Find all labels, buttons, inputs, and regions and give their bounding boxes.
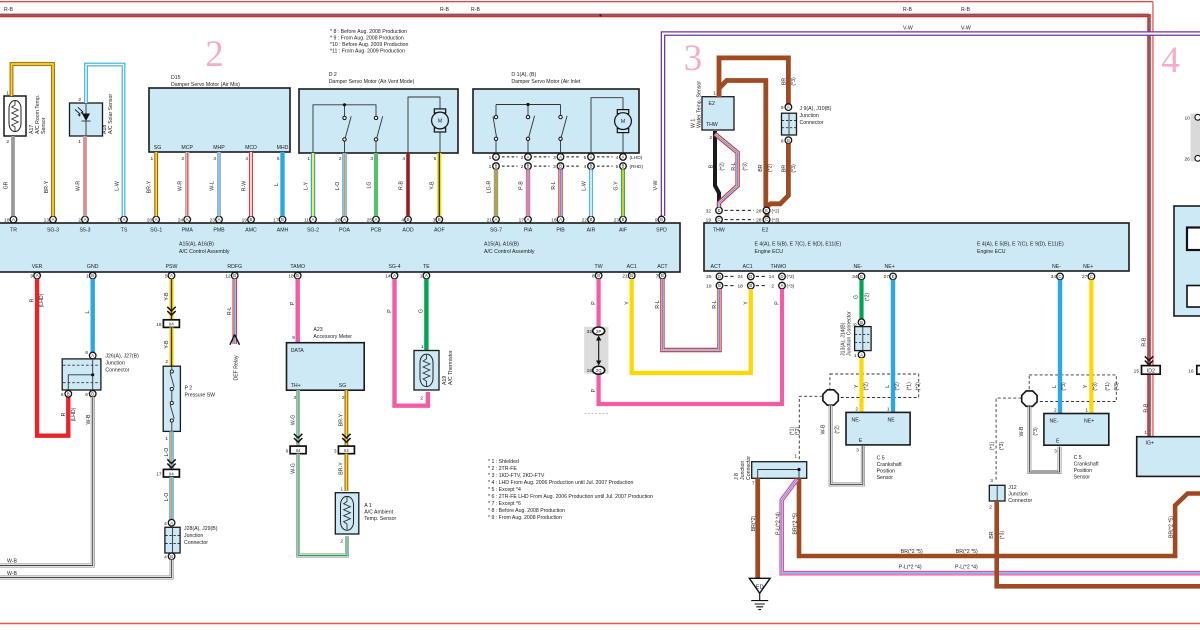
svg-text:G: G: [854, 295, 860, 299]
ID2 connector: [1134, 366, 1200, 375]
A/C assembly top pin names: [10, 228, 667, 234]
shield ground circle C5 #1: [823, 390, 838, 405]
svg-text:2: 2: [989, 505, 992, 511]
svg-text:W-B: W-B: [86, 414, 92, 425]
svg-text:IG+: IG+: [1146, 441, 1155, 447]
svg-text:J28(A), J29(B): J28(A), J29(B): [184, 526, 218, 532]
svg-text:5: 5: [616, 164, 619, 170]
svg-text:D 2: D 2: [329, 72, 337, 78]
svg-text:(*2): (*2): [864, 293, 870, 302]
C5 Crankshaft Position Sensor #2: [1044, 407, 1109, 480]
svg-text:G: G: [419, 309, 425, 313]
svg-text:PIA: PIA: [524, 228, 533, 234]
svg-text:P-L(*2 *4): P-L(*2 *4): [775, 512, 781, 535]
svg-text:1: 1: [887, 406, 890, 412]
A/C assembly bottom pin circles: [34, 272, 41, 279]
wire Y U AC1 to ECU AC1: [632, 279, 751, 373]
svg-text:(*1): (*1): [990, 442, 996, 451]
svg-text:Position: Position: [877, 469, 896, 475]
svg-text:2: 2: [1054, 407, 1057, 413]
svg-text:2: 2: [709, 135, 712, 141]
svg-text:W-R: W-R: [178, 181, 184, 192]
svg-text:(RHD): (RHD): [630, 164, 644, 170]
svg-text:1: 1: [6, 91, 9, 97]
svg-text:W-B: W-B: [820, 424, 826, 435]
svg-text:* 3 : 1KD-FTV, 2KD-FTV: * 3 : 1KD-FTV, 2KD-FTV: [488, 473, 545, 479]
svg-text:(*3): (*3): [787, 284, 795, 290]
svg-text:1: 1: [340, 486, 343, 492]
svg-text:1: 1: [421, 344, 424, 350]
svg-text:1: 1: [1144, 430, 1147, 436]
svg-text:5: 5: [165, 274, 168, 280]
wire P SG-4 to A19 pin2: [395, 279, 428, 406]
svg-text:4: 4: [164, 554, 167, 560]
svg-text:7: 7: [752, 481, 755, 487]
svg-text:26: 26: [1184, 156, 1190, 162]
svg-text:9: 9: [30, 274, 33, 280]
svg-text:*10 : Before Aug. 2009 Produc: *10 : Before Aug. 2009 Production: [330, 42, 409, 48]
svg-text:S5-3: S5-3: [80, 228, 91, 234]
svg-text:Sensor: Sensor: [1074, 475, 1091, 481]
svg-text:RDFG: RDFG: [227, 264, 242, 270]
svg-text:2: 2: [855, 406, 858, 412]
svg-text:A/C Solar Sensor: A/C Solar Sensor: [108, 94, 114, 134]
svg-text:L: L: [85, 310, 91, 313]
svg-text:Engine ECU: Engine ECU: [977, 249, 1006, 255]
C5 Crankshaft Position Sensor #1: [846, 406, 910, 481]
svg-text:(*3): (*3): [1000, 531, 1006, 540]
svg-text:2: 2: [420, 396, 423, 402]
svg-text:2: 2: [6, 139, 9, 145]
dashed link shield to J8: [799, 396, 822, 461]
svg-text:(*2): (*2): [795, 427, 801, 436]
svg-text:Y-B: Y-B: [164, 340, 170, 349]
svg-text:16: 16: [156, 322, 162, 328]
svg-text:5: 5: [584, 155, 587, 161]
svg-text:1: 1: [489, 155, 492, 161]
svg-text:2: 2: [521, 164, 524, 170]
production notes top: [330, 29, 409, 55]
svg-text:SG-2: SG-2: [307, 228, 319, 234]
svg-text:SG-7: SG-7: [490, 228, 502, 234]
svg-text:(*3): (*3): [772, 218, 780, 224]
wire BR-Y A17 to SG-3: [12, 64, 54, 216]
svg-text:R-B: R-B: [398, 180, 404, 189]
svg-text:3: 3: [213, 156, 216, 162]
svg-text:34: 34: [1051, 274, 1057, 280]
svg-text:(*2): (*2): [864, 382, 870, 391]
wire LG D2 to PCB: [374, 153, 378, 216]
svg-text:21: 21: [622, 274, 628, 280]
svg-text:26: 26: [335, 217, 341, 223]
svg-text:NE+: NE+: [1084, 419, 1094, 425]
wire V-W horizontal and down to SPD: [663, 34, 1200, 216]
svg-text:THW: THW: [706, 122, 718, 128]
svg-text:POA: POA: [339, 228, 350, 234]
svg-text:BR(*2 *5): BR(*2 *5): [1168, 516, 1174, 538]
svg-text:P: P: [290, 301, 296, 305]
svg-text:C 5: C 5: [1074, 455, 1082, 461]
svg-text:SG-4: SG-4: [388, 264, 400, 270]
svg-text:Connector: Connector: [184, 540, 208, 546]
svg-text:* 2 : 2TR-FE: * 2 : 2TR-FE: [488, 466, 517, 472]
wire G ECU NE- to J13: [859, 280, 863, 319]
svg-text:2: 2: [340, 538, 343, 544]
svg-text:(*1): (*1): [1105, 382, 1111, 391]
svg-text:18: 18: [288, 274, 294, 280]
ECU bottom pin rows ACT/AC1/THWO: [706, 274, 794, 289]
svg-text:6: 6: [85, 350, 88, 356]
wire P U TW to ECU THWO with 2P/2Q connector: [584, 279, 782, 404]
svg-text:(*3): (*3): [1114, 382, 1120, 391]
svg-text:7: 7: [117, 217, 120, 223]
J26(A) J27(B) junction connector: [61, 350, 139, 398]
svg-text:19: 19: [706, 218, 712, 224]
footnotes block: [488, 459, 653, 521]
svg-text:3: 3: [990, 478, 993, 484]
svg-text:ACT: ACT: [711, 264, 722, 270]
svg-text:A15(A), A16(B): A15(A), A16(B): [484, 242, 519, 248]
svg-text:LG-R: LG-R: [486, 181, 492, 194]
svg-text:R-B: R-B: [903, 7, 912, 13]
J8 junction connector: [734, 454, 807, 487]
wire W-B shield drain C5 #2: [1029, 407, 1059, 473]
svg-text:Junction Connector: Junction Connector: [847, 311, 853, 356]
wire BR-Y D15 SG to SG-1: [154, 152, 158, 216]
svg-text:NE-: NE-: [854, 264, 863, 270]
svg-text:6: 6: [286, 448, 289, 454]
svg-text:PMA: PMA: [182, 228, 194, 234]
svg-text:3: 3: [433, 217, 436, 223]
svg-text:E 4(A), E 5(B), E 7(C), E 9(D): E 4(A), E 5(B), E 7(C), E 9(D), E11(E): [755, 242, 842, 248]
svg-text:Engine ECU: Engine ECU: [755, 249, 784, 255]
wire R-L RDFG to DEF relay: [232, 279, 236, 344]
svg-text:6: 6: [85, 392, 88, 398]
wire BR-Y II4 to A1 pin1: [344, 454, 348, 491]
svg-text:THW: THW: [713, 228, 725, 234]
connector II4 #17: [156, 469, 179, 477]
wire BR W1 pin1 outer loop to J9: [719, 58, 788, 104]
svg-text:1: 1: [86, 274, 89, 280]
svg-text:A/C Control Assembly: A/C Control Assembly: [179, 249, 230, 255]
svg-text:4: 4: [616, 155, 619, 161]
svg-text:MCD: MCD: [245, 145, 257, 151]
svg-text:(*2): (*2): [768, 164, 774, 173]
svg-text:5: 5: [277, 156, 280, 162]
svg-text:(LHD): (LHD): [630, 155, 643, 161]
svg-text:L-O: L-O: [164, 493, 170, 502]
svg-text:16: 16: [551, 217, 557, 223]
svg-text:DATA: DATA: [291, 348, 305, 354]
wire W-B shield drain C5 #1: [831, 405, 863, 484]
svg-text:P 2: P 2: [185, 386, 193, 392]
svg-text:V-W: V-W: [903, 26, 913, 32]
svg-text:8: 8: [592, 274, 595, 280]
wire W-G A23 TH+ to II4: [296, 390, 300, 446]
svg-text:13: 13: [44, 217, 50, 223]
svg-text:3: 3: [684, 38, 703, 79]
svg-text:SG-1: SG-1: [150, 228, 162, 234]
svg-text:BR-Y: BR-Y: [44, 180, 50, 193]
wire W-B J26 to left edge: [0, 397, 93, 565]
svg-text:2: 2: [78, 217, 81, 223]
svg-text:25: 25: [367, 217, 373, 223]
svg-text:* 9 : From Aug. 2008 Producti: * 9 : From Aug. 2008 Production: [488, 515, 562, 521]
svg-text:Connector: Connector: [1008, 498, 1032, 504]
svg-text:W-B: W-B: [1019, 426, 1025, 437]
wire W-G II4 to A1 pin2: [298, 454, 347, 556]
svg-text:TH+: TH+: [291, 383, 301, 389]
svg-text:BR(*2): BR(*2): [751, 515, 757, 531]
svg-text:25: 25: [706, 274, 712, 280]
ECU THW/E2 top pin rows: [706, 208, 780, 223]
svg-text:TE: TE: [423, 264, 430, 270]
svg-text:PSW: PSW: [166, 264, 178, 270]
wire BR W1 pin1 inner loop to ECU E2: [719, 81, 766, 208]
svg-text:24: 24: [737, 274, 743, 280]
svg-text:14: 14: [769, 274, 775, 280]
svg-text:L-O: L-O: [335, 182, 341, 191]
wire W-R D15 MCP to PMA: [185, 152, 189, 216]
J13(A) J14(B) junction connector: [841, 311, 871, 359]
svg-text:Junction: Junction: [800, 113, 819, 119]
svg-text:2P: 2P: [596, 329, 601, 334]
svg-text:(LHD): (LHD): [39, 293, 45, 307]
svg-text:P-B: P-B: [518, 181, 524, 190]
svg-text:3: 3: [294, 395, 297, 401]
svg-text:L-W: L-W: [115, 181, 121, 191]
wire L D15 MHD to AMH: [280, 152, 284, 216]
svg-text:L: L: [885, 385, 891, 388]
D2 Damper Servo Motor (Air Vent Mode): [299, 72, 458, 162]
svg-text:P: P: [591, 301, 597, 305]
svg-text:R: R: [30, 298, 36, 302]
svg-text:W-B: W-B: [7, 571, 18, 577]
wire R-B top main horizontal: [0, 14, 1149, 18]
svg-text:L-W: L-W: [581, 181, 587, 191]
svg-text:II4: II4: [296, 448, 301, 453]
svg-text:PIB: PIB: [556, 228, 565, 234]
svg-text:L: L: [274, 183, 280, 186]
svg-text:4: 4: [245, 156, 248, 162]
wire W-R A18 to S5-3: [83, 136, 87, 216]
wire P-L J8 pin6 to right edge: [782, 480, 1200, 574]
svg-text:2: 2: [182, 156, 185, 162]
svg-text:P-L(*2 *4): P-L(*2 *4): [955, 564, 978, 570]
svg-text:GND: GND: [87, 264, 99, 270]
svg-text:2: 2: [339, 156, 342, 162]
svg-text:BR: BR: [782, 78, 788, 85]
svg-text:BR: BR: [989, 531, 995, 538]
svg-text:AIR: AIR: [587, 228, 596, 234]
svg-text:L: L: [1052, 385, 1058, 388]
svg-text:Crankshaft: Crankshaft: [1074, 462, 1100, 468]
svg-text:21: 21: [487, 217, 493, 223]
svg-text:9: 9: [292, 335, 295, 341]
svg-text:(*2): (*2): [787, 274, 795, 280]
chevron on R-B wire: [1145, 356, 1153, 364]
wire B W1 pin2 to ECU THW: [715, 131, 719, 207]
D1(A),(B) Damper Servo Motor (Air Inlet): [473, 72, 639, 153]
wire L-O II4 to J28: [169, 477, 173, 519]
svg-text:II4: II4: [169, 322, 174, 327]
wire BR J10 to ECU E2 row2: [767, 144, 788, 217]
svg-text:* 5 : Except *4: * 5 : Except *4: [488, 487, 521, 493]
svg-text:A 1: A 1: [364, 503, 372, 509]
svg-text:* 1 : Shielded: * 1 : Shielded: [488, 459, 519, 465]
svg-text:* 4 : LHD From Aug. 2006 Prod: * 4 : LHD From Aug. 2006 Production unti…: [488, 480, 633, 486]
svg-text:SG-3: SG-3: [47, 228, 59, 234]
svg-text:AMH: AMH: [277, 228, 289, 234]
svg-text:R-B: R-B: [1143, 403, 1149, 412]
svg-text:V-W: V-W: [653, 180, 659, 190]
svg-text:E: E: [1056, 438, 1060, 444]
svg-text:12: 12: [225, 274, 231, 280]
IG+ box: [1137, 430, 1200, 476]
svg-text:27: 27: [884, 274, 890, 280]
svg-text:18: 18: [737, 284, 743, 290]
svg-text:Position: Position: [1074, 468, 1093, 474]
svg-text:Damper Servo Motor (Air Inlet: Damper Servo Motor (Air Inlet: [511, 79, 580, 85]
svg-text:G-Y: G-Y: [613, 181, 619, 191]
svg-text:Connector: Connector: [746, 456, 752, 480]
svg-text:4: 4: [584, 164, 587, 170]
svg-text:Connector: Connector: [105, 368, 129, 374]
svg-text:W-B: W-B: [7, 558, 18, 564]
A19 A/C Thermistor: [414, 344, 454, 401]
svg-text:3: 3: [370, 156, 373, 162]
svg-text:16: 16: [587, 368, 593, 374]
svg-text:BR(*2 *5): BR(*2 *5): [956, 549, 978, 555]
wire P-B D1 to PIA: [526, 169, 530, 216]
J28(A) J29(B) junction connector: [164, 519, 218, 560]
A17 A/C Room Temp. Sensor: [4, 91, 47, 146]
svg-text:D15: D15: [171, 75, 181, 81]
svg-text:DEF Relay: DEF Relay: [234, 355, 240, 380]
svg-text:AC1: AC1: [743, 264, 753, 270]
wire W-B J28 to left edge: [0, 560, 172, 578]
Engine ECU box E4(A),E5(B),E7(C),E9(D),E11(E): [704, 223, 1129, 271]
J12 junction connector: [989, 478, 1032, 511]
svg-text:(*3): (*3): [999, 442, 1005, 451]
svg-text:NE-: NE-: [1050, 419, 1059, 425]
A23 Accessory Meter: [287, 327, 365, 401]
svg-text:II4: II4: [169, 471, 174, 476]
connector II4 #6: [286, 446, 306, 454]
svg-text:1: 1: [78, 139, 81, 145]
svg-text:MHD: MHD: [277, 145, 289, 151]
svg-text:A23: A23: [313, 327, 322, 333]
svg-text:7: 7: [656, 274, 659, 280]
svg-text:B: B: [709, 164, 715, 168]
svg-text:SG: SG: [154, 145, 162, 151]
svg-text:28: 28: [756, 208, 762, 214]
svg-text:23: 23: [614, 217, 620, 223]
svg-text:32: 32: [587, 329, 593, 335]
A/C assembly bottom pin names: [32, 264, 669, 270]
wire GR A17 to TR: [11, 136, 15, 216]
svg-text:6: 6: [61, 392, 64, 398]
svg-text:1: 1: [165, 436, 168, 442]
svg-text:1: 1: [854, 353, 857, 359]
svg-text:PCB: PCB: [371, 228, 382, 234]
A/C assembly top pin circles: [10, 216, 17, 223]
svg-text:Y: Y: [744, 301, 750, 305]
svg-text:AC1: AC1: [627, 264, 637, 270]
svg-text:BR-Y: BR-Y: [146, 180, 152, 193]
svg-text:Water Temp. Sensor: Water Temp. Sensor: [697, 81, 703, 128]
svg-text:1: 1: [794, 454, 797, 460]
svg-text:NE: NE: [888, 418, 896, 424]
wire L ECU NE-(C) to C5#2: [1058, 280, 1062, 414]
svg-text:R-L: R-L: [731, 162, 737, 170]
svg-text:3: 3: [1054, 448, 1057, 454]
svg-text:11: 11: [304, 217, 309, 223]
svg-text:NE-: NE-: [1052, 264, 1061, 270]
wire W-L D15 MHP to PMB: [217, 152, 221, 216]
svg-text:ID2: ID2: [1147, 368, 1155, 374]
svg-text:NE-: NE-: [852, 418, 861, 424]
wire G-Y D1 to AIF: [621, 169, 625, 216]
svg-text:E 4(A), E 5(B), E 7(C), E 9(D): E 4(A), E 5(B), E 7(C), E 9(D), E11(E): [977, 242, 1064, 248]
svg-text:Sensor: Sensor: [877, 475, 894, 481]
svg-text:ED: ED: [756, 584, 764, 590]
wire L-Y D2 to SG-2: [311, 153, 315, 216]
svg-text:A15(A), A16(B): A15(A), A16(B): [179, 242, 214, 248]
wire R-B top thin horizontal: [0, 1, 1153, 3]
svg-text:2: 2: [521, 155, 524, 161]
shield dashed box C5 #2: [1029, 375, 1116, 402]
svg-text:R-B: R-B: [471, 7, 480, 13]
svg-text:*11 : From Aug. 2009 Producti: *11 : From Aug. 2009 Production: [330, 49, 405, 55]
svg-text:A/C Control Assembly: A/C Control Assembly: [484, 249, 535, 255]
svg-text:1: 1: [713, 90, 716, 96]
svg-text:NE+: NE+: [1083, 264, 1093, 270]
svg-text:E2: E2: [709, 101, 715, 107]
svg-text:R-B: R-B: [4, 7, 13, 13]
svg-text:14: 14: [385, 274, 391, 280]
wire R-L D1 to PIB: [558, 169, 562, 216]
shield ground circle C5 #2: [1022, 391, 1037, 406]
svg-text:19: 19: [242, 217, 248, 223]
svg-text:4: 4: [1161, 40, 1180, 81]
svg-text:24: 24: [178, 217, 184, 223]
shield dashed box C5 #1: [830, 374, 919, 398]
svg-text:TAMO: TAMO: [290, 264, 305, 270]
svg-text:* 9 : From Aug. 2008 Producti: * 9 : From Aug. 2008 Production: [330, 36, 404, 42]
svg-text:17: 17: [519, 217, 525, 223]
svg-text:4: 4: [164, 521, 167, 527]
wire Y ECU NE+(C) to C5#2: [1089, 280, 1093, 414]
wire L-W A18 to TS: [86, 65, 124, 217]
svg-text:34: 34: [852, 274, 858, 280]
svg-text:NE+: NE+: [885, 264, 895, 270]
svg-text:17: 17: [156, 472, 162, 478]
wire BR J8 pin6 to right edge: [799, 478, 1200, 556]
blue box right edge: [1174, 206, 1200, 316]
svg-text:2Q: 2Q: [596, 368, 602, 373]
svg-text:W-L: W-L: [209, 181, 215, 191]
svg-text:(*2): (*2): [895, 382, 901, 391]
svg-text:PMB: PMB: [213, 228, 225, 234]
wire LG-R D1 to SG-7: [494, 169, 498, 216]
wire R-W D15 MCD to AMC: [249, 152, 253, 216]
svg-text:Junction: Junction: [1008, 492, 1027, 498]
P2 Pressure SW: [163, 359, 215, 442]
wire L GND to J26: [90, 279, 94, 352]
svg-text:* 8 : Before Aug. 2008 Produc: * 8 : Before Aug. 2008 Production: [488, 508, 565, 514]
bottom red separator line: [0, 623, 1200, 625]
